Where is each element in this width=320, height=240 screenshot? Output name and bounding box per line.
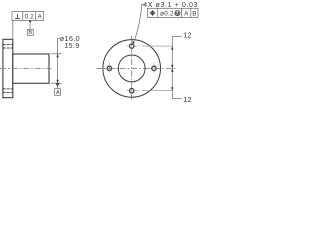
position symbol xyxy=(150,10,156,16)
centerline (horizontal dash-dot, left view) xyxy=(0,68,52,70)
hidden line top hole lower xyxy=(3,47,13,49)
boss circle xyxy=(118,55,145,82)
right hole centerline horizontal xyxy=(148,67,161,69)
feature control frame FCF2 (position o0.2 M A B) xyxy=(147,8,198,17)
datum B box xyxy=(27,29,33,35)
hidden line bottom hole upper xyxy=(3,88,13,90)
arrow down at bottom hole line xyxy=(171,87,173,91)
svg-text:A: A xyxy=(56,90,60,96)
feature control frame FCF1 (perpendicularity 0.2 A) xyxy=(12,12,44,21)
right hole xyxy=(152,66,156,70)
hidden line bottom hole lower xyxy=(3,91,13,93)
svg-text:15.9: 15.9 xyxy=(64,43,80,50)
M modifier circle xyxy=(175,11,180,16)
main horizontal centerline xyxy=(96,67,176,69)
left hole centerline horizontal xyxy=(103,67,116,69)
datum A box xyxy=(55,89,61,96)
outer flange circle xyxy=(103,40,161,98)
extension line from flange right face up to FCF xyxy=(12,21,14,39)
top hole centerline vertical xyxy=(131,40,133,52)
left hole xyxy=(107,66,111,70)
leader arrowhead xyxy=(133,41,135,44)
svg-text:B: B xyxy=(28,30,32,36)
right hole centerline vertical xyxy=(153,63,155,75)
svg-text:12: 12 xyxy=(183,30,191,39)
body (cylinder) outline xyxy=(13,54,49,83)
bottom hole centerline horizontal / extension to dim xyxy=(126,90,140,92)
arrow up at top extension xyxy=(56,54,58,58)
left hole centerline vertical xyxy=(108,63,110,75)
bottom hole centerline vertical xyxy=(131,85,133,97)
dimension line vertical xyxy=(57,38,59,88)
svg-text:A: A xyxy=(38,13,43,20)
bottom hole xyxy=(130,89,134,93)
datum B stem xyxy=(29,23,31,29)
dimension o16.0/15.9: bottom extension line xyxy=(51,82,62,84)
svg-text:ø0.2: ø0.2 xyxy=(160,10,174,17)
main vertical centerline xyxy=(131,36,133,101)
dimension o16.0/15.9: top extension line xyxy=(51,53,62,55)
svg-text:M: M xyxy=(175,11,179,17)
dimension top tick to text xyxy=(58,37,61,39)
svg-text:B: B xyxy=(192,10,196,17)
vertical dimension line for the two 12 dims xyxy=(171,36,173,98)
svg-text:0.2: 0.2 xyxy=(25,13,34,20)
datum B triangle under FCF1 xyxy=(29,21,32,23)
hidden line top hole upper xyxy=(3,44,13,46)
datum A triangle on bottom extension line xyxy=(55,83,60,86)
perpendicularity symbol xyxy=(15,14,20,19)
leader from hole note to top hole xyxy=(133,4,145,43)
arrow down at bottom extension xyxy=(56,80,58,84)
flange outline xyxy=(3,39,13,97)
arrow up at top hole line xyxy=(171,46,173,50)
top jog to text 12 xyxy=(172,35,182,37)
top hole centerline horizontal / extension to dim xyxy=(126,45,140,47)
arrows at center line xyxy=(171,65,173,69)
bottom jog to text 12 xyxy=(172,97,182,99)
svg-text:ø16.0: ø16.0 xyxy=(60,36,80,43)
svg-text:12: 12 xyxy=(183,95,191,104)
top hole xyxy=(130,44,134,48)
